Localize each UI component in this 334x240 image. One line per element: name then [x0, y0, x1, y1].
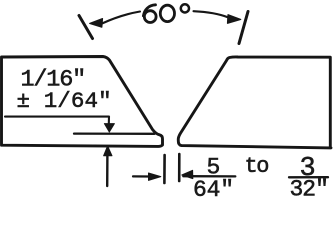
root face line — [74, 132, 155, 134]
extension tick 1 — [163, 155, 166, 183]
extension tick 2 — [178, 154, 181, 181]
left-pointing arrow merged with 5/64 fraction bar — [183, 175, 235, 177]
60 deg: left leader arc — [102, 12, 140, 24]
text 60 : digit 0 — [160, 5, 174, 21]
right arrowhead — [228, 15, 241, 24]
bottom dimension: right-pointing arrow — [133, 175, 150, 177]
degree circle — [181, 4, 189, 12]
leader underline from "± 1/64" — [5, 117, 109, 125]
down arrowhead to root face line — [104, 124, 114, 132]
up arrow below left plate — [106, 154, 109, 186]
text 60 : digit 6 — [143, 4, 189, 22]
svg-text:± 1/64": ± 1/64" — [17, 88, 112, 114]
svg-text:to: to — [245, 154, 269, 179]
right tick mark — [239, 12, 248, 44]
60 deg: right leader arc — [194, 11, 229, 17]
left plate — [2, 57, 163, 147]
right plate — [178, 57, 331, 148]
left arrowhead — [90, 19, 103, 28]
svg-text:64": 64" — [193, 177, 234, 197]
fraction bar 3/32 — [289, 176, 328, 178]
left tick mark — [79, 16, 93, 39]
svg-text:32": 32" — [290, 177, 328, 198]
